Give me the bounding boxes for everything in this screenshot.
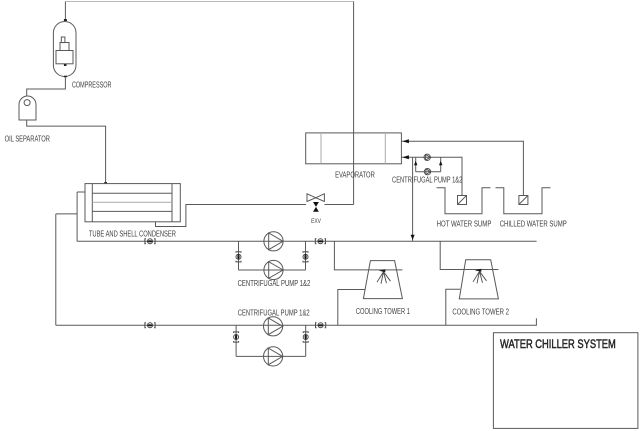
condenser tube line 2 (light) (92, 201, 172, 203)
svg-text:CHILLED WATER SUMP: CHILLED WATER SUMP (500, 220, 567, 229)
chilled pump loop left drop (415, 157, 417, 171)
EXV actuator filled hourglass (313, 202, 319, 212)
cooling tower 2 drain (446, 289, 460, 325)
condenser inlet tick (104, 182, 107, 184)
condenser pump 2 (264, 260, 283, 279)
chilled pump loop right drop (440, 157, 442, 171)
valve on bypass right (303, 252, 308, 262)
condenser pump 1 (264, 232, 283, 251)
svg-text:COOLING TOWER 2: COOLING TOWER 2 (452, 307, 509, 316)
svg-text:CENTRIFUGAL PUMP 1&2: CENTRIFUGAL PUMP 1&2 (238, 279, 311, 288)
condenser pump group 1: bypass left drop (238, 241, 240, 270)
cooling tower 2 feed (440, 241, 498, 269)
chilled pump loop bottom run (416, 171, 441, 173)
svg-text:EVAPORATOR: EVAPORATOR (335, 170, 375, 179)
wire: compressor top riser (64, 2, 66, 21)
valve on bypass left (234, 332, 239, 342)
valve on bypass right (303, 332, 308, 342)
wire: chilled water return line to evaporator (401, 141, 523, 195)
evaporator left header line (light) (320, 133, 322, 164)
wire: compressor discharge top run (light) (65, 1, 353, 3)
svg-text:OIL SEPARATOR: OIL SEPARATOR (5, 135, 50, 144)
arrow on chilled supply at evaporator (402, 155, 409, 159)
cooling tower 1 feed (334, 241, 402, 270)
cooling tower 1 body (363, 261, 402, 299)
compressor motor small cap (61, 37, 65, 43)
svg-text:HOT WATER SUMP: HOT WATER SUMP (437, 220, 492, 229)
compressor top port tick (64, 19, 67, 21)
chilled water sump tank (496, 188, 551, 214)
svg-text:COMPRESSOR: COMPRESSOR (72, 81, 112, 90)
arrow into evaporator (return) (402, 139, 409, 143)
bypass bottom run (239, 269, 306, 271)
wire: chilled water supply from evaporator to hot sump (401, 157, 462, 195)
condenser tube line 1 (92, 192, 172, 194)
evaporator right header line (light) (384, 133, 386, 164)
compressor bottom port tick (64, 64, 67, 66)
cooling tower 2 body (459, 260, 498, 299)
condenser water supply line (line 1) (77, 240, 536, 242)
compressor motor mid block (60, 43, 69, 51)
bypass right drop (305, 241, 307, 270)
return pump 1 (264, 317, 283, 336)
wire: hot-gas down line through evaporator to EXV (353, 2, 355, 205)
chilled pump 2 (424, 169, 430, 175)
valve on bypass left (236, 252, 241, 262)
condenser left header line (91, 184, 93, 222)
condenser shell (85, 184, 180, 222)
hot water sump tank (437, 188, 491, 214)
oil separator sight circle (24, 100, 30, 106)
chilled pump 1 (424, 154, 430, 160)
arrow up on loop left (414, 161, 417, 165)
wire: riser A down to condenser water supply line (76, 192, 78, 241)
wire: cross link riser A to riser B (56, 213, 77, 215)
arrow down at junction (411, 235, 415, 240)
wire: EXV outlet to evaporator riser (324, 204, 353, 206)
wire: condenser left stub to riser A (77, 191, 85, 193)
wire: chilled water drop to condenser line (412, 157, 414, 241)
chilled sump float valve (519, 196, 528, 205)
valve V3 on line 2 (145, 323, 155, 328)
svg-text:TUBE AND SHELL CONDENSER: TUBE AND SHELL CONDENSER (89, 229, 176, 238)
svg-text:WATER CHILLER SYSTEM: WATER CHILLER SYSTEM (500, 339, 616, 351)
EXV valve bowtie body (307, 194, 324, 202)
valve V2 on line 1 (315, 239, 325, 244)
condenser right header line (171, 184, 173, 222)
cooling tower 1 spray (377, 269, 391, 284)
compressor motor main block (56, 51, 73, 64)
return pump 2 (264, 347, 283, 366)
condenser tube line 3 (92, 210, 172, 212)
cooling tower 2 spray (473, 269, 487, 284)
cooling tower 1 drain (338, 290, 365, 326)
wire: riser B down to condenser water return line (55, 214, 57, 325)
title box (493, 333, 638, 429)
oil separator body (19, 96, 36, 120)
arrow up on loop right (439, 161, 442, 165)
bypass right drop (305, 325, 307, 356)
wire: oil separator to condenser top (27, 120, 106, 184)
wire: compressor to oil separator (27, 78, 66, 97)
bypass bottom run (236, 355, 306, 357)
svg-text:EXV: EXV (311, 218, 321, 225)
valve V1 on line 1 (145, 239, 155, 244)
condenser water return line (line 2) (56, 318, 537, 325)
hot sump float valve (458, 196, 467, 205)
evaporator shell (306, 133, 402, 164)
compressor shell (53, 22, 76, 77)
svg-text:CENTRIFUGAL PUMP 1&2: CENTRIFUGAL PUMP 1&2 (238, 309, 310, 318)
svg-text:CENTRIFUGAL PUMP 1&2: CENTRIFUGAL PUMP 1&2 (392, 175, 463, 184)
return pump group 2: bypass left drop (235, 325, 237, 356)
compressor shell bottom tick (64, 76, 67, 78)
valve V4 on line 2 (316, 323, 326, 328)
wire: condenser liquid outlet jog (156, 205, 307, 227)
svg-text:COOLING TOWER 1: COOLING TOWER 1 (356, 307, 410, 316)
